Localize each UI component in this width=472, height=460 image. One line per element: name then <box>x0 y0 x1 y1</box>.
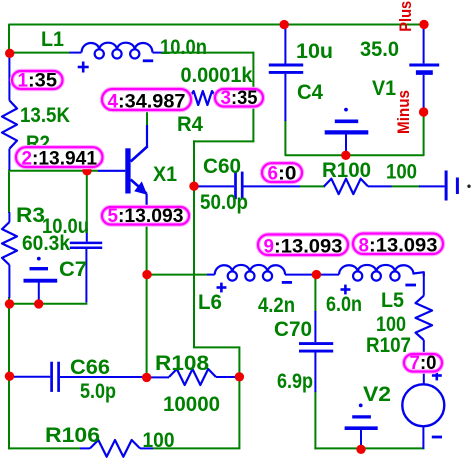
voltage source V2 <box>402 384 444 426</box>
wire C7 column upper <box>86 172 88 231</box>
svg-text:10000: 10000 <box>163 393 220 416</box>
junction C66 right / R108 <box>142 373 151 382</box>
svg-text::0: :0 <box>420 352 437 374</box>
junction ground C4 <box>341 151 350 160</box>
wire left rail mid <box>8 172 10 213</box>
svg-text:35.0: 35.0 <box>360 38 399 61</box>
junction L6 L5 C70 <box>312 270 321 279</box>
junction left rail ground row <box>5 299 14 308</box>
node 1 label <box>12 71 63 89</box>
svg-text:L1: L1 <box>41 28 64 51</box>
svg-text:9: 9 <box>264 236 275 258</box>
wire net 6 segment after node label <box>300 185 325 187</box>
wire collector to R4 left <box>147 97 189 99</box>
capacitor C70 <box>314 311 316 342</box>
svg-text:C4: C4 <box>297 81 323 104</box>
wire vertical behind node 3 label <box>252 52 254 142</box>
wire C70 column upper <box>314 275 316 312</box>
svg-text:100: 100 <box>143 429 175 452</box>
node 3 label <box>215 89 263 107</box>
junction node 2 / C7 <box>82 166 91 175</box>
wire node 2 horizontal <box>8 170 98 172</box>
svg-text:2: 2 <box>22 148 33 170</box>
svg-text::35: :35 <box>231 87 258 109</box>
svg-text:L5: L5 <box>381 289 404 312</box>
svg-text:Minus: Minus <box>394 90 413 134</box>
svg-text::13.093: :13.093 <box>369 235 438 257</box>
inductor L6 <box>215 265 285 275</box>
transistor X1 collector <box>131 146 148 161</box>
wire emitter column <box>146 212 148 377</box>
resistor R108 <box>147 376 169 378</box>
transistor X1 emitter <box>131 180 147 194</box>
svg-text:3: 3 <box>221 87 232 109</box>
svg-text:L6: L6 <box>198 291 222 314</box>
svg-text:C60: C60 <box>203 155 241 178</box>
svg-text:C66: C66 <box>70 356 110 379</box>
junction emitter / L6 <box>142 270 151 279</box>
capacitor C60 <box>196 185 234 187</box>
svg-text::13.093: :13.093 <box>118 205 184 227</box>
wire collector stub <box>146 98 148 127</box>
polarity minus of L1 <box>143 59 153 62</box>
svg-text:4: 4 <box>108 91 119 113</box>
inductor L5 leads <box>316 274 339 276</box>
svg-text:6: 6 <box>268 163 279 185</box>
inductor L1 <box>82 43 153 53</box>
wire L1 right to corner <box>163 52 253 54</box>
svg-text:R108: R108 <box>155 352 209 375</box>
inductor L5 <box>339 265 414 275</box>
transistor X1 base lead <box>98 170 125 172</box>
svg-text:C7: C7 <box>59 258 87 281</box>
wire C4 bottom column <box>285 111 423 155</box>
resistor R2 <box>8 56 10 101</box>
svg-text:100: 100 <box>386 161 417 184</box>
capacitor C4 <box>284 25 286 64</box>
node 9 label <box>258 235 348 256</box>
svg-text:0.0001k: 0.0001k <box>181 64 253 87</box>
junction ground V2 <box>356 445 365 454</box>
svg-text:Plus: Plus <box>396 1 415 32</box>
svg-text::34.987: :34.987 <box>118 91 186 113</box>
wire node 1 to L1 left <box>9 52 70 54</box>
wire C70 column lower <box>314 391 316 449</box>
svg-text:X1: X1 <box>153 163 177 186</box>
ground symbol near C7 <box>37 257 41 261</box>
node 2 label <box>16 147 103 167</box>
output terminal <box>419 185 445 187</box>
svg-text:V1: V1 <box>372 77 396 100</box>
svg-text:50.0p: 50.0p <box>200 191 248 214</box>
polarity plus of L6 <box>220 283 223 293</box>
junction C4 top <box>280 20 289 29</box>
svg-text:5.0p: 5.0p <box>80 380 116 403</box>
wire emitter to L6 <box>146 274 207 276</box>
junction V1 minus <box>419 107 428 116</box>
junction R108 right <box>235 372 244 381</box>
svg-text:1: 1 <box>18 70 29 92</box>
svg-text:V2: V2 <box>363 383 391 406</box>
inductor L1 leads <box>70 52 82 54</box>
junction V1 plus <box>419 20 428 29</box>
polarity plus of L1 <box>82 62 85 73</box>
wire bottom left rail right part <box>153 447 240 449</box>
node 6 label <box>262 163 302 182</box>
junction C60 left <box>189 182 198 191</box>
polarity plus of V2 <box>435 371 438 381</box>
polarity plus of L5 <box>344 285 347 295</box>
resistor R3 <box>8 212 10 222</box>
polarity minus of L5 <box>405 284 416 287</box>
wire top rail from node 1 corner to V1 plus <box>9 25 424 55</box>
svg-text:13.5K: 13.5K <box>20 104 70 127</box>
wire corner to R108 right column <box>193 346 239 348</box>
wire node 3 corner to C60 drop <box>193 140 254 142</box>
node 4 label <box>102 89 191 110</box>
svg-text:R3: R3 <box>16 204 45 227</box>
resistor R106 <box>80 447 90 449</box>
voltage source V1 <box>423 25 425 63</box>
svg-text::35: :35 <box>28 70 57 92</box>
svg-text::13.093: :13.093 <box>274 236 343 258</box>
resistor R4 <box>189 91 217 105</box>
svg-text:R4: R4 <box>177 113 203 136</box>
wire vertical C60 left column <box>193 140 195 347</box>
svg-text:10.0n: 10.0n <box>160 36 207 59</box>
capacitor C7 <box>86 229 88 242</box>
inductor L6 leads <box>207 274 215 276</box>
svg-text:R107: R107 <box>366 334 411 357</box>
svg-text:7: 7 <box>410 352 421 374</box>
resistor R107 <box>423 275 425 296</box>
polarity minus of V2 <box>432 436 442 439</box>
wire left rail top <box>8 53 10 57</box>
svg-text:6.9p: 6.9p <box>277 370 313 393</box>
polarity minus of L6 <box>282 281 292 284</box>
svg-text:5: 5 <box>108 205 119 227</box>
ground symbol near C4 <box>344 108 348 112</box>
junction node 1 <box>5 49 14 58</box>
svg-text:6.0n: 6.0n <box>326 293 362 316</box>
node 8 label <box>353 234 443 255</box>
svg-text:10.0u: 10.0u <box>42 215 89 238</box>
node 7 label <box>404 354 442 372</box>
wire bottom left rail left part <box>8 447 80 449</box>
svg-text:8: 8 <box>359 235 370 257</box>
svg-text:10u: 10u <box>296 40 333 63</box>
svg-text::0: :0 <box>278 163 297 185</box>
svg-text:R106: R106 <box>45 424 100 447</box>
svg-text:C70: C70 <box>274 318 312 341</box>
transistor X1 base bar <box>125 148 130 193</box>
junction ground C7 <box>34 299 43 308</box>
wire left rail bottom <box>8 297 10 449</box>
junction C66 left <box>5 372 14 381</box>
resistor R100 <box>324 185 325 187</box>
svg-text::13.941: :13.941 <box>32 148 97 170</box>
wire ground row left <box>9 303 87 305</box>
svg-text:4.2n: 4.2n <box>258 294 295 317</box>
capacitor C66 <box>11 376 50 378</box>
wire bottom right rail <box>314 447 424 449</box>
wire net 6 segment before terminal <box>391 185 420 187</box>
wire R108 right column down <box>238 346 240 448</box>
svg-text:R100: R100 <box>322 159 371 182</box>
ground symbol near V2 <box>359 404 363 408</box>
node 5 label <box>102 207 189 225</box>
svg-text:100: 100 <box>376 313 406 336</box>
